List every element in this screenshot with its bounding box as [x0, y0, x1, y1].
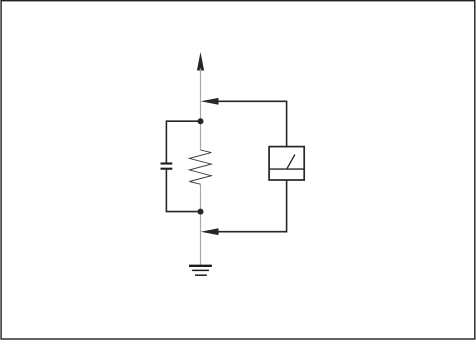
ground — [189, 266, 212, 275]
arrow: feedback into upper node (left) — [201, 98, 219, 105]
arrow: output terminal (up) — [197, 52, 204, 71]
wire: box bottom down and left to lower arrow — [216, 180, 287, 232]
node: lower junction dot — [198, 209, 204, 215]
wire: center vertical lower (node 0) — [200, 184, 202, 266]
capacitor C1 — [161, 164, 173, 169]
resistor R1 — [189, 150, 211, 184]
node: upper junction dot — [198, 118, 204, 124]
arrow: feedback into lower node (left) — [201, 228, 219, 235]
wire: capacitor bottom to lower node — [166, 170, 200, 212]
wire: top branch from node to capacitor — [166, 121, 200, 162]
wire: center vertical upper (node V) — [200, 69, 202, 151]
variable element (IEC box with needle) — [269, 147, 304, 180]
wire: right branch top horizontal and down to box — [216, 101, 287, 146]
